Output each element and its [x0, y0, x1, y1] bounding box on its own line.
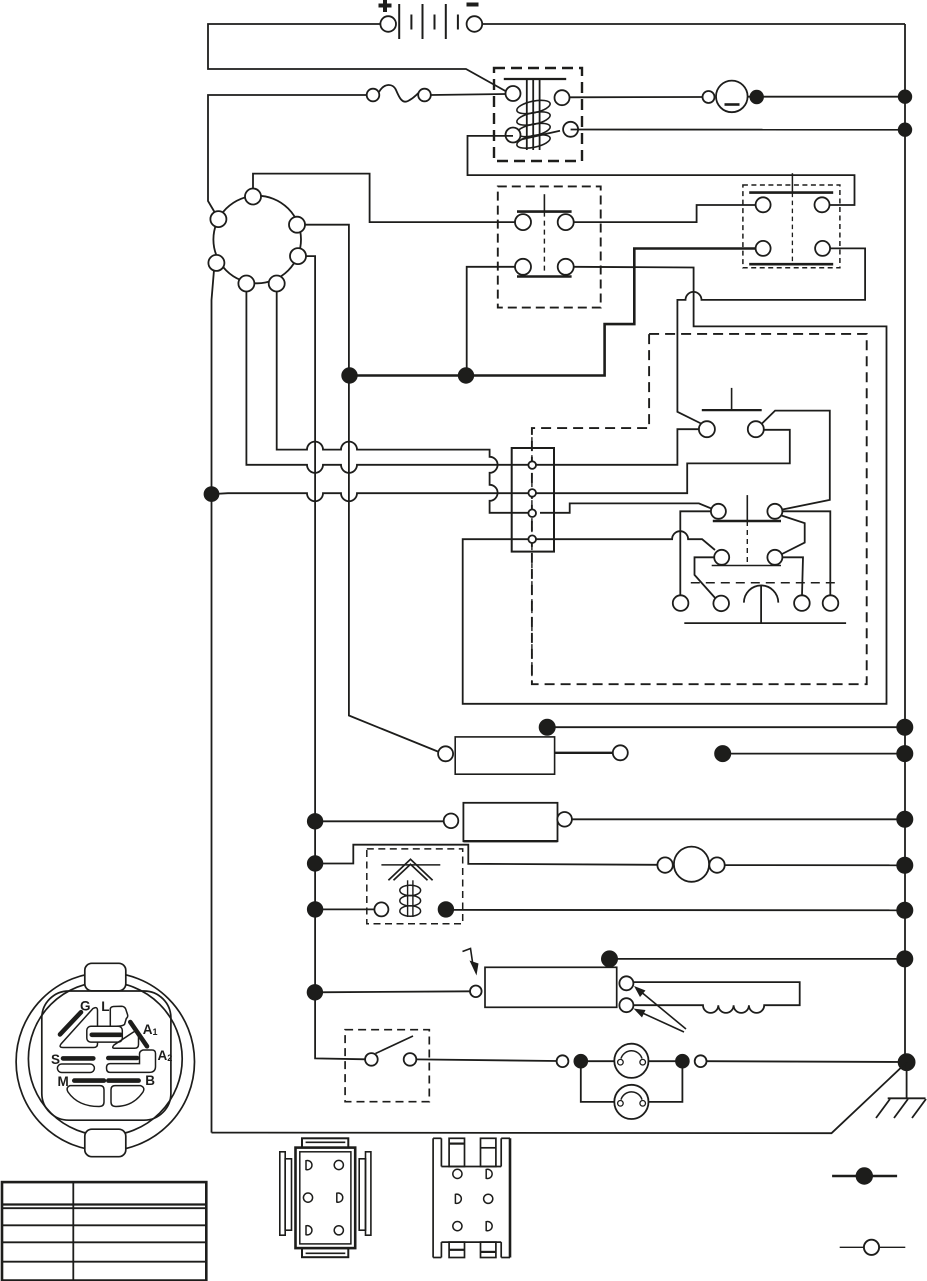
wire top pin to interlock switch S1 — [253, 174, 516, 223]
wire S1 bottom-left down to junction — [467, 267, 515, 369]
wire right-upper pin down to module — [304, 225, 439, 752]
wire S3 right to S4 top-right — [762, 411, 830, 510]
svg-text:B: B — [145, 1073, 155, 1088]
junction right border row4 — [897, 858, 912, 873]
splice dot after breaker — [439, 902, 454, 917]
engine dashed box — [532, 334, 867, 684]
splice dot — [602, 951, 617, 966]
legend connector symbol — [840, 1240, 906, 1255]
solenoid K1 dashed box — [494, 68, 582, 161]
switch S4 lower pole — [712, 550, 783, 566]
wire solenoid output to ammeter — [570, 96, 704, 98]
wire S1 bottom-right big loop to connector pin4 — [463, 267, 887, 704]
connector pair right — [695, 1055, 707, 1067]
connector P2 6-pin socket — [433, 1138, 510, 1257]
wire box2 to right border — [572, 818, 905, 820]
SECTION-TOP — [205, 173, 866, 1132]
connector pair — [557, 1055, 569, 1067]
junction dot column row5 — [308, 902, 323, 917]
wire splice above switch to right border — [610, 959, 905, 966]
SECTION-ROWS — [212, 949, 927, 1134]
solenoid K1 — [504, 79, 578, 151]
wire battery positive to frame left — [208, 24, 509, 93]
mower switch S6 box — [463, 949, 617, 1008]
SECTION-ENGINE — [308, 720, 913, 924]
wire solenoid coil to headlight switch — [468, 136, 855, 205]
wire to lamp1 — [581, 1060, 615, 1062]
junction dot row — [342, 368, 357, 383]
switch S1 clutch-brake dashed box — [498, 186, 601, 307]
ground — [876, 1062, 926, 1118]
wire S4 bottom-right to terminal T3 — [782, 557, 803, 595]
wire S5 to lamps — [416, 1059, 557, 1061]
wire column over breaker to motor row — [315, 845, 658, 865]
wire junction row to headlight switch bottom-left (thick) — [350, 249, 756, 376]
SECTION-CONNECTOR — [463, 267, 887, 704]
SECTION-BOTTOM — [16, 963, 194, 1156]
wire lamps to ground node — [707, 1060, 907, 1063]
junction dot on left border — [205, 487, 219, 501]
wire B pin1 to engine switch — [536, 429, 700, 465]
contact bar A1 — [130, 1022, 147, 1046]
circuit breaker dashed box — [367, 849, 463, 924]
wire C pin2 to engine switch right — [536, 430, 790, 493]
wire right-lower pin down left column — [305, 256, 366, 1059]
slot triangle right — [113, 1031, 139, 1048]
ignition switch top tab — [85, 963, 126, 991]
table — [2, 1182, 206, 1281]
ignition coil loop — [619, 976, 799, 1013]
wire column to module box2 — [315, 820, 444, 822]
wire pin3 to engine switch S4 top-left — [540, 503, 712, 512]
wire right border — [904, 24, 906, 1062]
wire bottom border — [212, 1062, 907, 1133]
wire A bottom-right pin to connector pin3 — [277, 291, 528, 513]
connector J2 4-pin — [512, 428, 554, 684]
ignition switch rear view outer circle — [16, 972, 194, 1150]
wire breaker to right border — [446, 909, 905, 911]
switch S2 contacts — [749, 173, 833, 264]
wire magneto splice to right border — [547, 726, 904, 728]
svg-text:G: G — [80, 998, 91, 1013]
slot bottom-right quarter — [111, 1086, 144, 1107]
junction right border second — [899, 123, 912, 136]
headlamp L2 — [614, 1085, 648, 1119]
svg-text:L: L — [101, 999, 109, 1014]
wire battery negative to right border — [482, 23, 905, 25]
connector P1 6-pin plug — [280, 1138, 371, 1257]
switch S2 headlight dashed box — [743, 185, 840, 268]
slot bottom-left quarter — [67, 1086, 104, 1107]
junction dot column row3 — [308, 814, 323, 829]
junction right border row2 — [897, 746, 912, 761]
motor M2 — [657, 847, 724, 882]
lamp switch S5 — [365, 1036, 416, 1066]
headlamp L1 — [614, 1044, 648, 1078]
lamp switch S5 dashed box — [345, 1030, 429, 1102]
arrow to coil terminals — [634, 986, 687, 1032]
wire S1 to headlight switch — [574, 205, 755, 222]
slot top blob — [110, 1006, 127, 1026]
wire lamp2 right up — [649, 1067, 683, 1102]
splice dot row2 — [715, 746, 730, 761]
wire motor to right border — [725, 864, 905, 866]
switch S3 engine interlock — [699, 388, 764, 437]
ammeter M1 — [703, 81, 906, 113]
ignition switch inner circle — [28, 982, 182, 1136]
contact bar M — [74, 1078, 104, 1083]
svg-text:A1: A1 — [143, 1022, 158, 1037]
junction dot column row4 — [308, 856, 323, 871]
slot triangle left — [60, 1008, 97, 1048]
module box1 — [438, 737, 628, 774]
engine terminals and magneto — [673, 583, 846, 623]
ignition switch body rounded square — [42, 991, 171, 1120]
legend splice symbol — [832, 1168, 897, 1184]
switch S4 upper pole — [711, 495, 783, 564]
wire solenoid contact to right border — [571, 129, 905, 131]
wire fuse feed from left border — [208, 95, 367, 212]
junction right border row6 — [897, 951, 912, 966]
splice — [750, 91, 763, 104]
wire S4 bottom-left to terminal T2 — [695, 557, 717, 599]
wire column to breaker — [315, 908, 375, 910]
circuit breaker CB1 — [374, 859, 440, 917]
slot A2 hook — [107, 1050, 156, 1072]
wire splice row2 — [723, 753, 905, 755]
junction right border row5 — [897, 903, 912, 918]
wire S4 top-right to terminal T4 — [782, 511, 830, 595]
ignition switch bottom tab — [85, 1129, 126, 1157]
switch S1 contacts — [515, 194, 574, 276]
junction right border row3 — [897, 812, 912, 827]
splice dot left — [540, 720, 555, 735]
contact bar S — [63, 1056, 93, 1061]
connector J1 round — [208, 189, 306, 292]
contact bar B — [108, 1078, 138, 1083]
svg-text:M: M — [58, 1074, 69, 1089]
wire S2 bottom-right loop to engine interlock — [677, 248, 865, 423]
wire lamps parallel left — [581, 1061, 615, 1102]
splice dot lamps left — [574, 1055, 587, 1068]
wire column to mower switch — [315, 991, 471, 992]
slot S row stadium — [57, 1064, 94, 1073]
ground node dot — [899, 1054, 915, 1070]
contact bar mid-right — [108, 1056, 137, 1061]
fuse F1 — [367, 85, 506, 102]
contact bar G — [60, 1012, 81, 1034]
wire S4 top-left to terminal T1 — [680, 511, 711, 595]
contact bar center — [92, 1033, 121, 1038]
wire C left border dot to connector pin2 — [212, 493, 529, 501]
slot center bar surround — [87, 1026, 123, 1042]
wire D pin4 to engine switch S4 — [536, 531, 715, 550]
wire B bottom-left pin to connector pin1 — [246, 291, 528, 473]
junction right border — [897, 720, 912, 735]
junction dot row2 — [459, 368, 474, 383]
battery B1 — [379, 0, 483, 39]
splice dot lamps right — [676, 1055, 689, 1068]
svg-text:S: S — [51, 1052, 60, 1067]
junction right border top — [899, 90, 912, 103]
wire S4 top-right zigzag to bottom-right — [781, 516, 805, 555]
junction dot column row6 — [308, 985, 323, 1000]
wire left border lower — [212, 270, 215, 1133]
wire lamps right side — [649, 1060, 677, 1062]
SECTION-EMBLEM — [2, 1138, 905, 1281]
module box2 — [444, 803, 572, 841]
